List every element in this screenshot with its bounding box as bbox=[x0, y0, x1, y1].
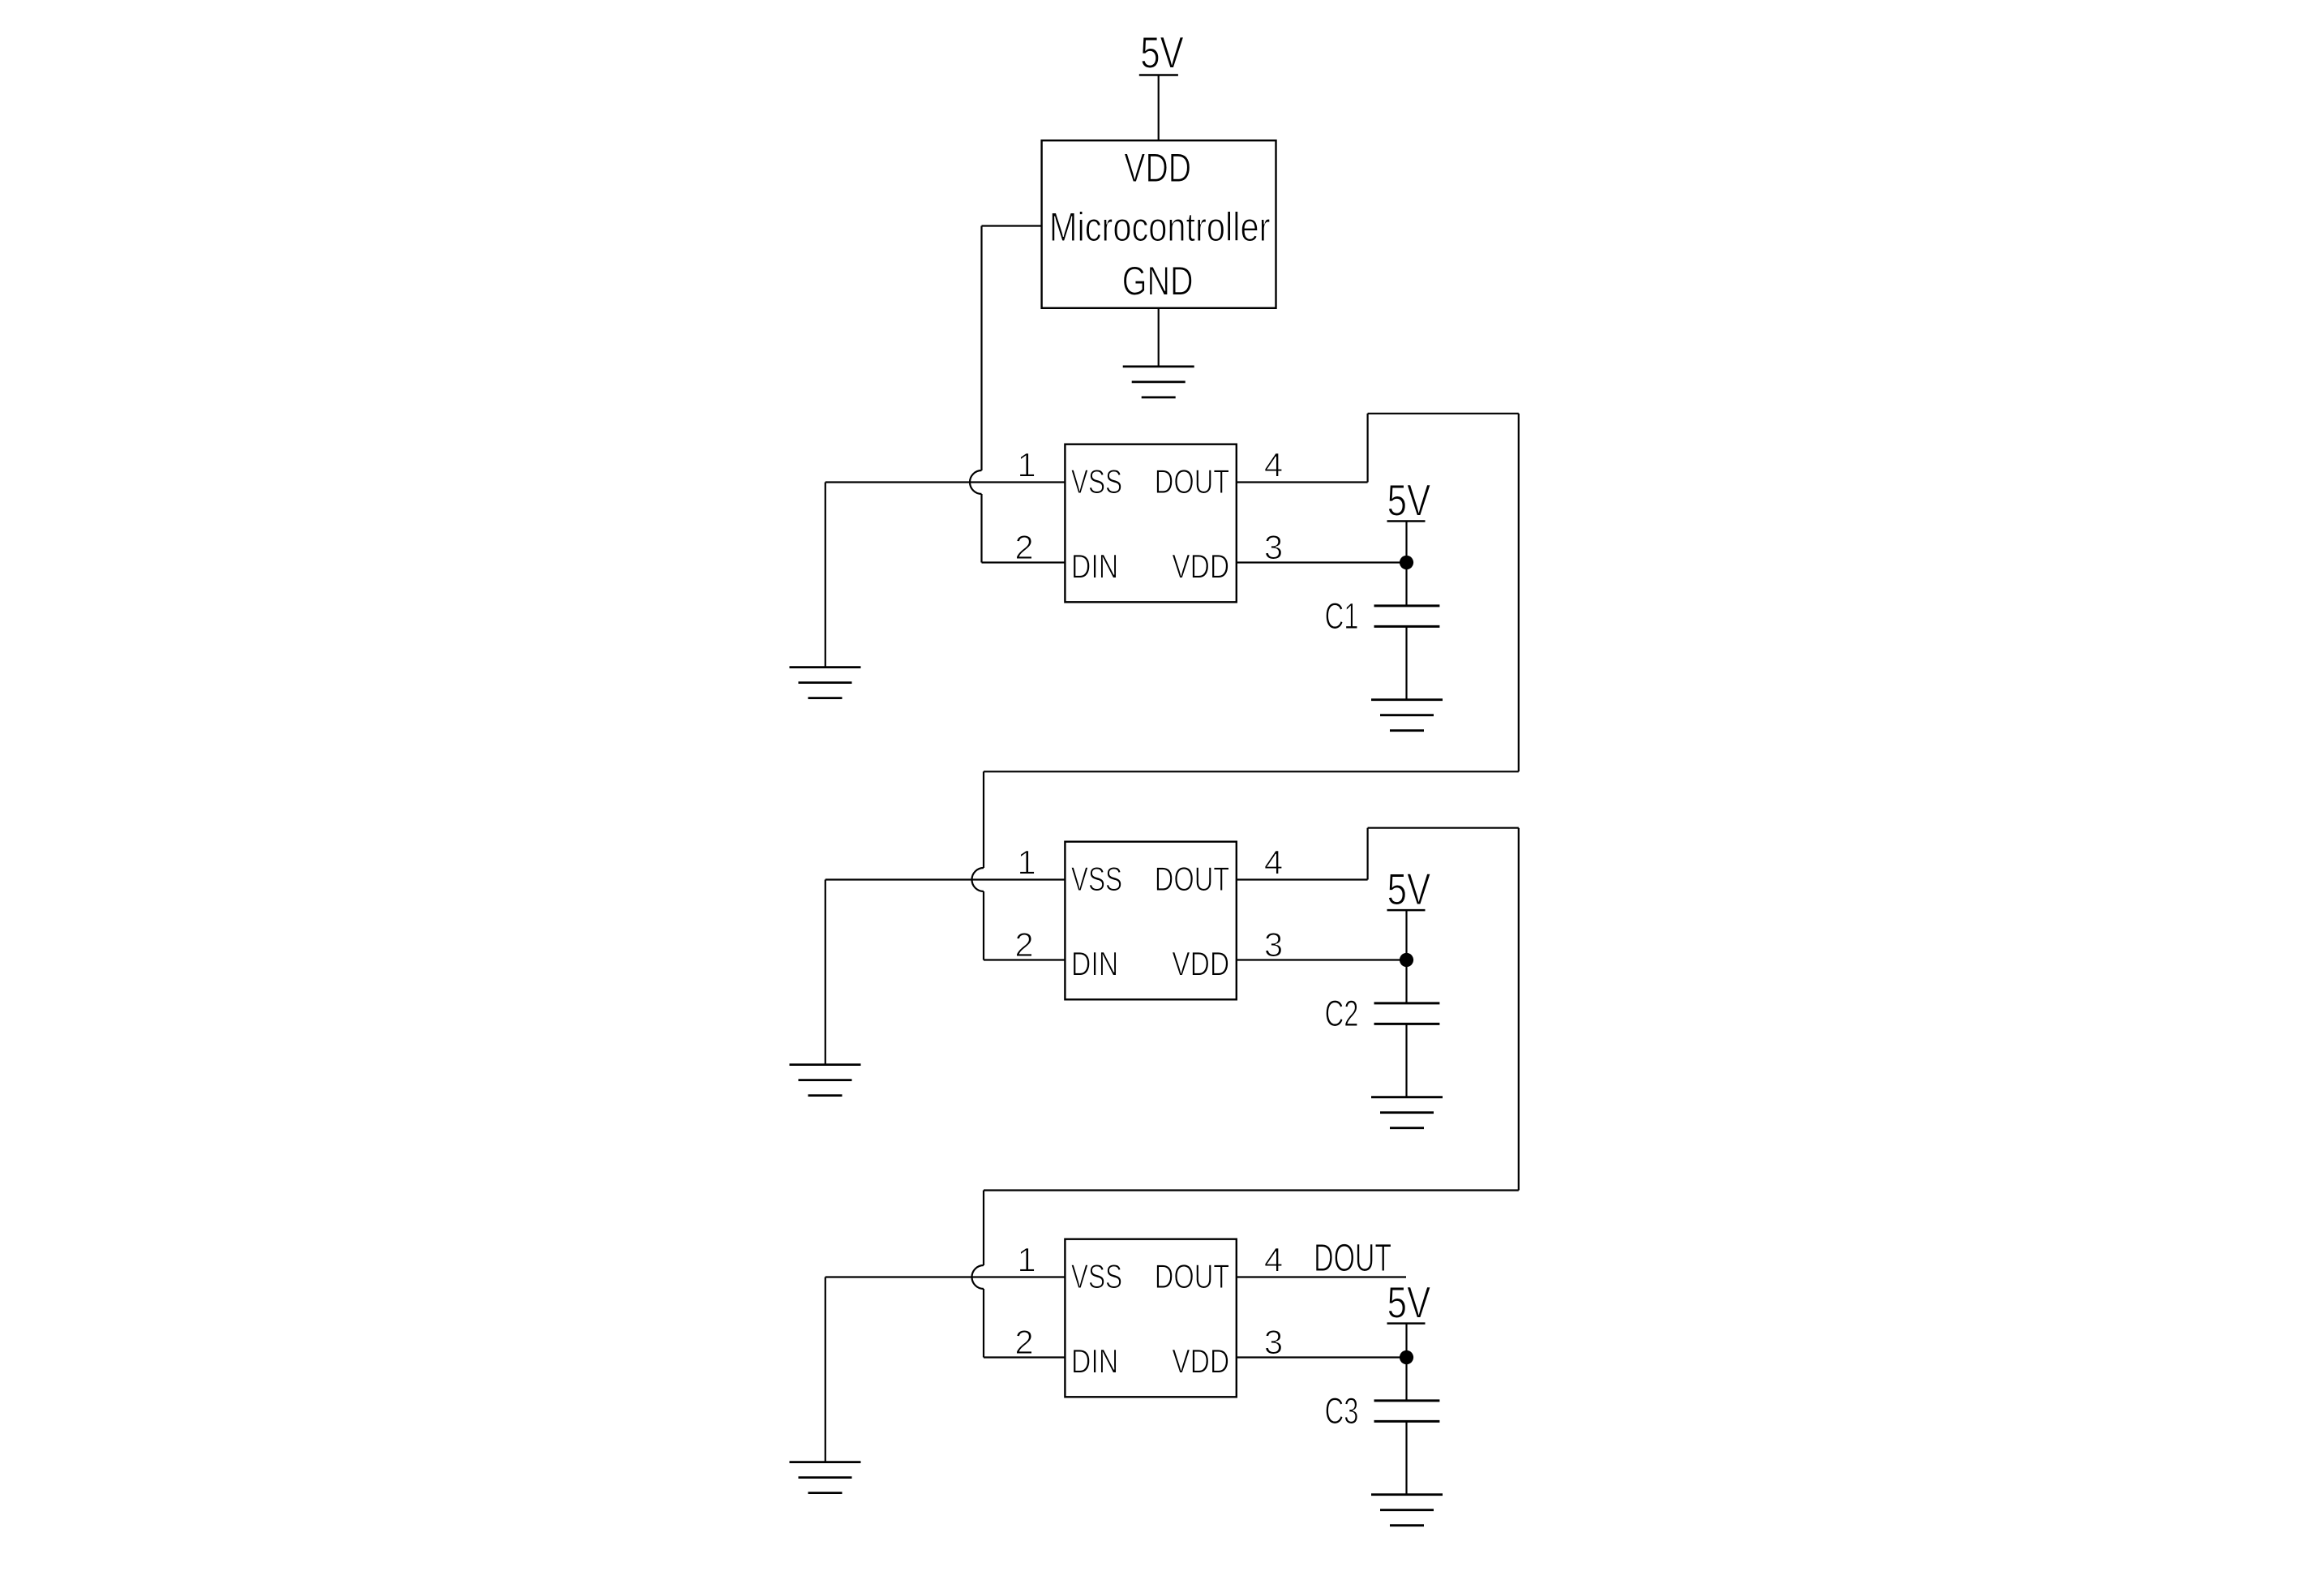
svg-text:1: 1 bbox=[1017, 844, 1036, 882]
svg-text:VSS: VSS bbox=[1071, 462, 1122, 500]
svg-text:5V: 5V bbox=[1387, 865, 1431, 914]
svg-text:DIN: DIN bbox=[1071, 1342, 1118, 1380]
svg-text:C2: C2 bbox=[1325, 993, 1359, 1034]
svg-text:5V: 5V bbox=[1387, 1278, 1431, 1328]
svg-text:5V: 5V bbox=[1140, 28, 1184, 78]
svg-text:3: 3 bbox=[1264, 1323, 1283, 1361]
svg-text:2: 2 bbox=[1014, 528, 1033, 566]
svg-text:DIN: DIN bbox=[1071, 547, 1118, 586]
svg-text:VDD: VDD bbox=[1124, 145, 1191, 191]
svg-text:DOUT: DOUT bbox=[1155, 1257, 1229, 1295]
svg-text:DOUT: DOUT bbox=[1155, 462, 1229, 500]
svg-text:1: 1 bbox=[1017, 1241, 1036, 1279]
svg-text:Microcontroller: Microcontroller bbox=[1049, 204, 1271, 250]
svg-text:C3: C3 bbox=[1325, 1390, 1359, 1432]
svg-text:DOUT: DOUT bbox=[1155, 860, 1229, 898]
svg-text:3: 3 bbox=[1264, 528, 1283, 566]
svg-text:GND: GND bbox=[1122, 259, 1194, 304]
svg-text:C1: C1 bbox=[1325, 595, 1359, 637]
svg-text:5V: 5V bbox=[1387, 476, 1431, 526]
svg-text:DOUT: DOUT bbox=[1314, 1236, 1391, 1280]
svg-text:4: 4 bbox=[1264, 1241, 1283, 1279]
svg-text:VDD: VDD bbox=[1172, 945, 1229, 983]
svg-text:1: 1 bbox=[1017, 446, 1036, 484]
svg-text:VDD: VDD bbox=[1172, 1342, 1229, 1380]
svg-text:4: 4 bbox=[1264, 446, 1283, 484]
svg-text:4: 4 bbox=[1264, 844, 1283, 882]
svg-text:VSS: VSS bbox=[1071, 1257, 1122, 1295]
svg-text:VSS: VSS bbox=[1071, 860, 1122, 898]
svg-text:DIN: DIN bbox=[1071, 945, 1118, 983]
svg-text:VDD: VDD bbox=[1172, 547, 1229, 586]
svg-text:3: 3 bbox=[1264, 925, 1283, 964]
svg-text:2: 2 bbox=[1014, 1323, 1033, 1361]
svg-text:2: 2 bbox=[1014, 925, 1033, 964]
